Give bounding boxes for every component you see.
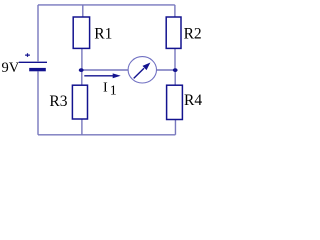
svg-text:I: I [103, 81, 108, 96]
wire R3 bottom lead [81, 119, 83, 135]
ammeter U1 circle [128, 57, 156, 83]
wire R2 top lead [174, 5, 176, 17]
resistor R3 [72, 85, 87, 119]
wire left vertical lower (battery - to bottom rail) [37, 71, 39, 135]
ammeter arrow [134, 68, 144, 78]
svg-text:R3: R3 [49, 93, 67, 110]
node B junction dot [173, 68, 178, 72]
wire R1 bottom to node A [81, 48, 83, 70]
node A junction dot [79, 68, 84, 72]
wire R2 bottom to node B [174, 48, 176, 70]
current direction arrow I1 [84, 75, 113, 77]
wire node A to R3 top [81, 70, 83, 85]
battery V1 bottom plate (-) [29, 68, 46, 71]
svg-text:1: 1 [110, 84, 117, 99]
wire ammeter right to node B [157, 69, 176, 71]
wire left vertical upper (rail to battery +) [37, 5, 39, 61]
svg-text:R4: R4 [184, 92, 202, 109]
battery V1 top plate (+) [19, 61, 47, 63]
wire bottom rail [38, 134, 175, 136]
resistor R1 [73, 17, 89, 48]
wire R4 bottom lead [174, 120, 176, 135]
resistor R2 [166, 17, 181, 48]
wire R1 top lead [82, 5, 84, 17]
svg-text:R1: R1 [94, 25, 112, 42]
svg-text:9V: 9V [2, 60, 20, 76]
resistor R4 [167, 85, 183, 119]
wire node A to ammeter left [82, 69, 128, 71]
wire node B to R4 top [174, 70, 176, 85]
battery plus sign [25, 53, 30, 57]
wire top rail [38, 4, 175, 6]
svg-text:R2: R2 [184, 26, 202, 43]
